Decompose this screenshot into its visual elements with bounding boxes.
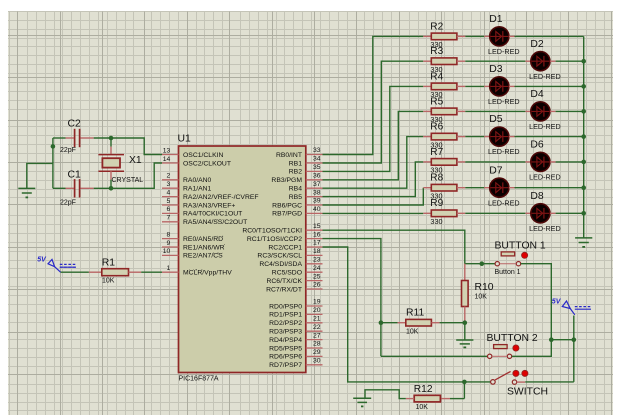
svg-text:OSC1/CLKIN: OSC1/CLKIN — [183, 152, 224, 159]
wire RC2 pin17 down to switch row — [323, 247, 465, 382]
svg-text:CRYSTAL: CRYSTAL — [112, 177, 144, 184]
svg-text:36: 36 — [313, 173, 321, 180]
resistor R9 — [423, 212, 431, 214]
svg-text:RC3/SCK/SCL: RC3/SCK/SCL — [257, 253, 302, 260]
svg-text:RD1/PSP1: RD1/PSP1 — [269, 312, 302, 319]
node R10/R11/ground junction — [463, 320, 468, 325]
svg-text:RB6/PGC: RB6/PGC — [272, 202, 302, 209]
svg-text:R2: R2 — [430, 21, 443, 32]
svg-text:BUTTON 1: BUTTON 1 — [495, 240, 546, 251]
pin 20 (RD1) — [306, 313, 323, 315]
pin 15 (RC0) — [306, 229, 323, 231]
pin 24 (RC5) — [306, 271, 323, 273]
node bus junction y=161.9 — [581, 160, 586, 165]
wire 5V to R1 — [61, 271, 89, 273]
svg-text:5V: 5V — [552, 299, 562, 306]
node crystal top — [109, 136, 114, 141]
svg-text:R5: R5 — [430, 96, 443, 107]
resistor R7 — [423, 161, 431, 163]
resistor R10 (vertical) — [464, 264, 466, 281]
power 5V (right) — [573, 316, 575, 382]
resistor R4 — [423, 85, 431, 87]
pin 37 (RB4) — [306, 187, 323, 189]
svg-text:34: 34 — [313, 156, 321, 163]
resistor R12 — [463, 382, 465, 399]
node crystal bottom — [109, 186, 114, 191]
svg-text:RD3/PSP3: RD3/PSP3 — [269, 329, 302, 336]
wire D3 to cathode bus — [515, 85, 584, 87]
svg-text:R8: R8 — [430, 173, 443, 184]
svg-text:R4: R4 — [430, 71, 443, 82]
svg-text:D3: D3 — [489, 64, 503, 75]
wire C1 row — [53, 187, 66, 189]
node bus junction y=86.4 — [581, 84, 586, 89]
svg-text:RC5/SDO: RC5/SDO — [272, 270, 302, 277]
wire R12 to ground — [365, 390, 406, 399]
svg-text:16: 16 — [313, 231, 321, 238]
svg-text:9: 9 — [167, 240, 171, 247]
wire R5 to D4 — [465, 110, 525, 112]
capacitor C1 — [74, 179, 76, 197]
node bus junction y=187.7 — [581, 185, 586, 190]
svg-text:D7: D7 — [489, 165, 503, 176]
wire RB2 to R4 — [323, 86, 424, 171]
resistor R6 — [423, 136, 431, 138]
svg-text:RA0/AN0: RA0/AN0 — [183, 177, 212, 184]
svg-text:4: 4 — [167, 189, 171, 196]
svg-text:D1: D1 — [489, 14, 503, 25]
pin 19 (RD0) — [306, 305, 323, 307]
svg-text:6: 6 — [167, 206, 171, 213]
svg-text:LED-RED: LED-RED — [488, 47, 520, 56]
svg-text:40: 40 — [313, 206, 321, 213]
svg-text:RD7/PSP7: RD7/PSP7 — [269, 362, 302, 369]
svg-text:13: 13 — [163, 147, 171, 154]
pin 34 (RB1) — [306, 162, 323, 164]
svg-text:LED-RED: LED-RED — [488, 147, 520, 156]
svg-text:22pF: 22pF — [60, 200, 76, 207]
pin 23 (RC4) — [306, 263, 323, 265]
svg-text:RB0/INT: RB0/INT — [276, 152, 302, 159]
wire to button2 left contact — [381, 355, 488, 357]
node switch row / R12 riser — [462, 380, 467, 385]
wire RC0 pin15 to button1 column — [323, 230, 465, 264]
IC U1 PIC16F877A body — [179, 146, 306, 373]
svg-text:U1: U1 — [178, 134, 192, 145]
svg-text:R11: R11 — [406, 307, 425, 318]
svg-text:C1: C1 — [68, 169, 82, 180]
wire R3 to D2 — [465, 60, 525, 62]
pin 2 (RA0) — [162, 179, 179, 181]
svg-text:Button 1: Button 1 — [495, 269, 521, 276]
resistor R3 — [423, 60, 431, 62]
LED D5 (LED-RED) — [484, 136, 489, 138]
svg-text:PIC16F877A: PIC16F877A — [179, 376, 219, 383]
pin 27 (RD4) — [306, 339, 323, 341]
svg-text:39: 39 — [313, 198, 321, 205]
svg-text:RD0/PSP0: RD0/PSP0 — [269, 303, 302, 310]
node bus junction y=136.6 — [581, 134, 586, 139]
svg-text:LED-RED: LED-RED — [488, 97, 520, 106]
wire to button1 left contact — [465, 263, 495, 265]
resistor R2 — [423, 35, 431, 37]
svg-text:LED-RED: LED-RED — [529, 224, 561, 233]
svg-text:33: 33 — [313, 147, 321, 154]
pin 38 (RB5) — [306, 196, 323, 198]
svg-text:BUTTON 2: BUTTON 2 — [487, 333, 538, 344]
pin 26 (RC7) — [306, 288, 323, 290]
wire D7 to cathode bus — [515, 187, 584, 189]
svg-text:R1: R1 — [102, 258, 116, 269]
svg-text:RA4/T0CKI/C1OUT: RA4/T0CKI/C1OUT — [183, 211, 242, 218]
node 5V column — [572, 337, 577, 342]
wire D4 to cathode bus — [556, 110, 584, 112]
pin 21 (RD2) — [306, 322, 323, 324]
svg-text:30: 30 — [313, 358, 321, 365]
wire R6 to D5 — [465, 136, 484, 138]
svg-text:10K: 10K — [416, 404, 429, 411]
svg-text:15: 15 — [313, 223, 321, 230]
svg-text:R10: R10 — [475, 282, 494, 293]
svg-text:LED-RED: LED-RED — [529, 173, 561, 182]
wire switch to 5V column — [525, 381, 574, 383]
svg-text:X1: X1 — [129, 155, 142, 166]
pin 13 (OSC1) — [162, 154, 179, 156]
wire to OSC2 pin14 — [111, 163, 162, 188]
crystal X1 — [110, 138, 112, 147]
pin 10 (RE2) — [162, 254, 179, 256]
svg-text:MCLR/Vpp/THV: MCLR/Vpp/THV — [183, 270, 232, 277]
wire R8 to D7 — [465, 187, 484, 189]
svg-text:RA1/AN1: RA1/AN1 — [183, 186, 212, 193]
svg-text:C2: C2 — [68, 119, 82, 130]
svg-text:7: 7 — [167, 215, 171, 222]
svg-text:R6: R6 — [430, 122, 443, 133]
LED D1 (LED-RED) — [484, 35, 489, 37]
svg-text:RC1/T1OSI/CCP2: RC1/T1OSI/CCP2 — [247, 236, 302, 243]
svg-text:RD2/PSP2: RD2/PSP2 — [269, 320, 302, 327]
svg-text:RB3/PGM: RB3/PGM — [271, 177, 302, 184]
pin 7 (RA5) — [162, 221, 179, 223]
svg-text:24: 24 — [313, 265, 321, 272]
ground (LED bus) — [575, 237, 592, 239]
pin 36 (RB3) — [306, 179, 323, 181]
svg-text:D8: D8 — [530, 191, 544, 202]
node bus junction y=61.2 — [581, 59, 586, 64]
svg-text:18: 18 — [313, 248, 321, 255]
svg-text:10K: 10K — [406, 328, 419, 335]
svg-text:330: 330 — [430, 217, 442, 226]
svg-text:1: 1 — [167, 265, 171, 272]
capacitor C2 — [74, 129, 76, 147]
button BUTTON 2 — [488, 354, 492, 358]
svg-text:27: 27 — [313, 332, 321, 339]
svg-text:2: 2 — [167, 173, 171, 180]
wire R7 to D6 — [465, 161, 525, 163]
wire RC1 pin16 down left column — [323, 239, 381, 357]
pin 14 (OSC2) — [162, 162, 179, 164]
wire C2 row — [53, 137, 66, 139]
svg-text:LED-RED: LED-RED — [529, 122, 561, 131]
wire D6 to cathode bus — [556, 161, 584, 163]
svg-text:25: 25 — [313, 273, 321, 280]
resistor R11 — [381, 322, 398, 324]
svg-text:R9: R9 — [430, 198, 443, 209]
svg-text:RA5/AN4/SS/C2OUT: RA5/AN4/SS/C2OUT — [183, 219, 247, 226]
wire D1 to cathode bus — [515, 35, 584, 37]
svg-text:D4: D4 — [530, 89, 544, 100]
svg-text:10K: 10K — [475, 294, 488, 301]
svg-text:28: 28 — [313, 341, 321, 348]
pin 16 (RC1) — [306, 238, 323, 240]
svg-text:D6: D6 — [530, 140, 544, 151]
node bus junction y=213.3 — [581, 211, 586, 216]
svg-text:10K: 10K — [102, 278, 115, 285]
pin 5 (RA3) — [162, 204, 179, 206]
svg-text:D2: D2 — [530, 39, 544, 50]
node button junction — [549, 337, 554, 342]
LED D7 (LED-RED) — [484, 187, 489, 189]
svg-text:RC6/TX/CK: RC6/TX/CK — [266, 278, 302, 285]
svg-text:23: 23 — [313, 257, 321, 264]
svg-text:RC7/RX/DT: RC7/RX/DT — [266, 286, 302, 293]
resistor R5 — [423, 110, 431, 112]
wire RB0 to R2 — [323, 36, 424, 154]
LED D3 (LED-RED) — [484, 85, 489, 87]
pin 22 (RD3) — [306, 330, 323, 332]
pin 17 (RC2) — [306, 246, 323, 248]
pin 39 (RB6) — [306, 204, 323, 206]
node R11 left — [379, 320, 384, 325]
svg-text:21: 21 — [313, 316, 321, 323]
svg-text:17: 17 — [313, 240, 321, 247]
node bus junction y=111.4 — [581, 109, 586, 114]
LED D6 (LED-RED) — [525, 161, 530, 163]
wire RB6 to R8 — [323, 188, 424, 205]
wire left vertical C2/C1 — [52, 138, 54, 188]
svg-text:RC2/CCP1: RC2/CCP1 — [268, 244, 302, 251]
resistor R8 — [423, 187, 431, 189]
svg-text:20: 20 — [313, 307, 321, 314]
wire D8 to cathode bus — [556, 212, 584, 214]
pin 1 (MCLR) — [162, 271, 179, 273]
svg-text:R7: R7 — [430, 147, 443, 158]
svg-text:R3: R3 — [430, 46, 443, 57]
svg-text:38: 38 — [313, 189, 321, 196]
wire RB7 to R9 — [323, 212, 424, 214]
svg-text:3: 3 — [167, 181, 171, 188]
svg-text:37: 37 — [313, 181, 321, 188]
LED D4 (LED-RED) — [525, 110, 530, 112]
svg-text:RE2/AN7/CS: RE2/AN7/CS — [183, 253, 223, 260]
svg-text:RD5/PSP5: RD5/PSP5 — [269, 345, 302, 352]
ground (R10) — [464, 323, 466, 340]
wire to OSC1 pin13 — [111, 138, 162, 155]
pin 25 (RC6) — [306, 280, 323, 282]
pin 28 (RD5) — [306, 347, 323, 349]
pin 33 (RB0) — [306, 154, 323, 156]
cathode bus vertical — [583, 36, 585, 238]
wire button1 right to junction — [521, 264, 552, 340]
pin 18 (RC3) — [306, 254, 323, 256]
wire button2 right to junction — [512, 340, 552, 357]
svg-text:RE0/AN5/RD: RE0/AN5/RD — [183, 236, 223, 243]
svg-text:19: 19 — [313, 299, 321, 306]
wire RB5 to R7 — [323, 162, 424, 197]
node button1 row dot — [480, 261, 485, 266]
svg-text:5: 5 — [167, 198, 171, 205]
svg-text:RD6/PSP6: RD6/PSP6 — [269, 354, 302, 361]
svg-text:RA2/AN2/VREF-/CVREF: RA2/AN2/VREF-/CVREF — [183, 194, 259, 201]
pin 6 (RA4) — [162, 212, 179, 214]
svg-text:14: 14 — [163, 156, 171, 163]
ground (crystal) — [18, 187, 35, 189]
svg-text:SWITCH: SWITCH — [507, 387, 548, 398]
wire to switch left contact — [464, 381, 490, 383]
svg-text:RA3/AN3/VREF+: RA3/AN3/VREF+ — [183, 202, 235, 209]
svg-text:D5: D5 — [489, 114, 503, 125]
svg-text:RB1: RB1 — [289, 160, 302, 167]
svg-text:RB2: RB2 — [289, 169, 302, 176]
svg-text:RE1/AN6/WR: RE1/AN6/WR — [183, 244, 225, 251]
button BUTTON 1 — [495, 262, 499, 266]
pin 35 (RB2) — [306, 170, 323, 172]
svg-text:RB7/PGD: RB7/PGD — [272, 211, 302, 218]
pin 4 (RA2) — [162, 196, 179, 198]
pin 30 (RD7) — [306, 364, 323, 366]
svg-text:22: 22 — [313, 324, 321, 331]
pin 8 (RE0) — [162, 238, 179, 240]
wire R2 to D1 — [465, 35, 484, 37]
svg-text:5V: 5V — [37, 257, 47, 264]
wire R4 to D3 — [465, 85, 484, 87]
svg-text:LED-RED: LED-RED — [529, 72, 561, 81]
svg-text:LED-RED: LED-RED — [488, 198, 520, 207]
svg-text:RC0/T1OSO/T1CKI: RC0/T1OSO/T1CKI — [242, 228, 302, 235]
wire RB1 to R3 — [323, 61, 424, 163]
wire R1 to MCLR pin1 — [129, 271, 142, 273]
svg-text:35: 35 — [313, 164, 321, 171]
pin 29 (RD6) — [306, 355, 323, 357]
node dot on left vertical — [51, 144, 56, 149]
wire RB3 to R5 — [323, 111, 424, 179]
wire ground branch — [27, 163, 53, 188]
LED D2 (LED-RED) — [525, 60, 530, 62]
ground (R12) — [353, 397, 371, 399]
pin 9 (RE1) — [162, 246, 179, 248]
svg-text:26: 26 — [313, 282, 321, 289]
svg-text:RB4: RB4 — [289, 186, 302, 193]
svg-text:OSC2/CLKOUT: OSC2/CLKOUT — [183, 160, 231, 167]
wire D5 to cathode bus — [515, 136, 584, 138]
svg-text:29: 29 — [313, 349, 321, 356]
pin 40 (RB7) — [306, 212, 323, 214]
svg-text:RD4/PSP4: RD4/PSP4 — [269, 337, 302, 344]
wire junction to 5V column — [551, 339, 574, 341]
svg-text:RB5: RB5 — [289, 194, 302, 201]
resistor R1 — [102, 269, 129, 276]
wire RB4 to R6 — [323, 137, 424, 189]
svg-text:10: 10 — [163, 248, 171, 255]
svg-text:22pF: 22pF — [60, 147, 76, 154]
switch SWITCH — [491, 380, 496, 385]
svg-text:8: 8 — [167, 231, 171, 238]
svg-text:RC4/SDI/SDA: RC4/SDI/SDA — [259, 261, 302, 268]
wire D2 to cathode bus — [556, 60, 584, 62]
LED D8 (LED-RED) — [525, 212, 530, 214]
svg-text:R12: R12 — [414, 384, 433, 395]
wire R9 to D8 — [465, 212, 525, 214]
pin 3 (RA1) — [162, 187, 179, 189]
